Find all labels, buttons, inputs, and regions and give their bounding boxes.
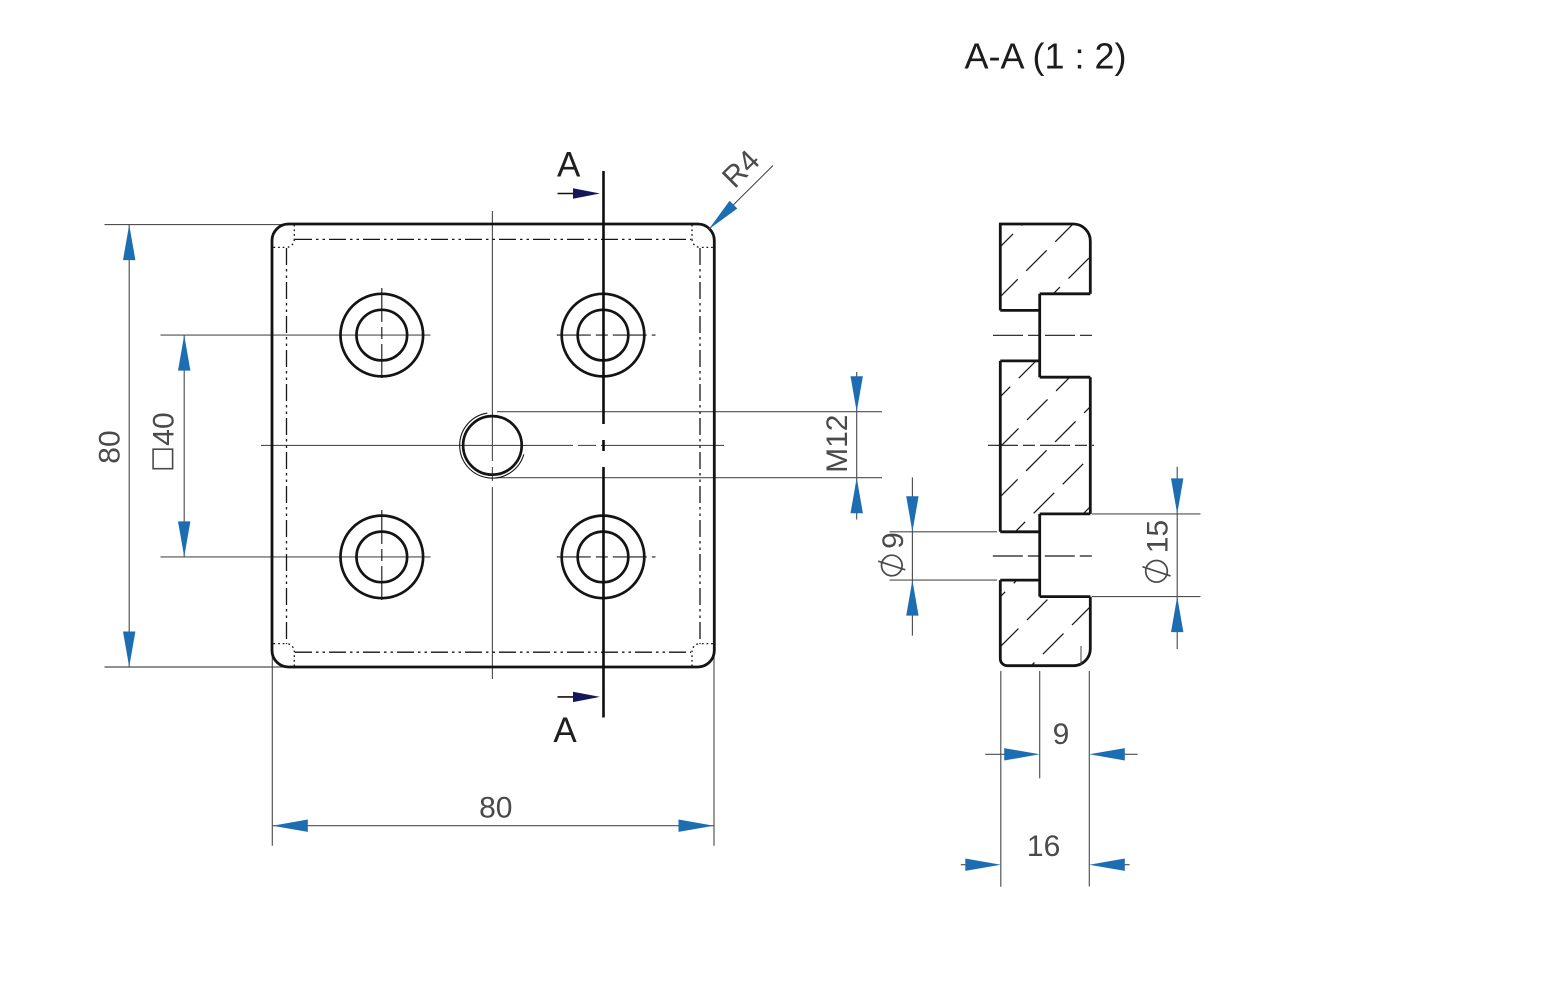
svg-text:9: 9 <box>877 532 910 549</box>
upper hole in section: counterbore dia 15 box <box>1038 294 1041 377</box>
dimension square-40 dimension line with arrows <box>183 335 185 557</box>
section hole centerline (lower hole) <box>993 555 1096 557</box>
counterbore hole top-right: inner circle dia 9 <box>578 310 629 361</box>
dimension 80 (bottom, horizontal) extension lines <box>271 648 273 846</box>
section cut line A-A <box>602 171 605 718</box>
dimension dia 15 extension lines <box>1092 513 1201 515</box>
hole centerline horizontal (bottom-right hole) <box>557 556 656 558</box>
section outline (cut plate profile) <box>1000 224 1090 310</box>
counterbore hole bottom-right: inner circle dia 9 <box>578 532 629 583</box>
lower hole in section: counterbore dia 15 box <box>1038 514 1041 597</box>
counterbore hole top-left: outer circle dia 15 <box>341 294 424 377</box>
svg-text:9: 9 <box>1053 718 1070 751</box>
leader R4 line <box>709 166 773 230</box>
corner fillet tangent marks (dotted, 4 corners) <box>293 225 295 240</box>
central tapped hole M12: minor circle <box>463 416 522 475</box>
dimension 80 (left, vertical) extension lines <box>105 224 291 226</box>
hole centerline vertical (top-left hole) <box>381 288 383 382</box>
dimension M12 dimension line with arrows <box>856 372 858 520</box>
dimension M12 extension lines <box>497 411 882 413</box>
hole centerline vertical (bottom-left hole) <box>381 510 383 604</box>
svg-text:15: 15 <box>1142 520 1175 553</box>
plate centerline horizontal <box>261 444 724 446</box>
dimension 80 (left, vertical) dimension line with arrows <box>128 225 130 667</box>
central tapped hole M12: thread crest arc (3/4 thin circle) <box>460 413 524 478</box>
svg-text:40: 40 <box>148 412 181 445</box>
phantom profile line (dash-dot-dot inner square) <box>295 238 691 240</box>
section mid centerline <box>988 444 1094 446</box>
counterbore hole top-right: outer circle dia 15 <box>562 294 645 377</box>
svg-text:80: 80 <box>94 430 127 463</box>
dimension 9 (counterbore depth) extension lines <box>1039 671 1041 778</box>
svg-text:16: 16 <box>1027 830 1060 863</box>
leader R4 arrowhead <box>709 201 738 230</box>
fillet tangent edge (bottom right, thin) <box>1080 646 1082 665</box>
plate centerline vertical <box>491 211 493 679</box>
dimension 16 dimension line with arrows <box>961 864 967 866</box>
counterbore hole bottom-left: outer circle dia 15 <box>341 516 424 599</box>
svg-text:A: A <box>553 711 577 750</box>
dimension dia 9 dimension line with arrows <box>911 477 913 635</box>
dimension text dia 9 <box>877 532 910 576</box>
dimension square-40 extension lines (through hole centers) <box>161 334 431 336</box>
section arrow bottom (view direction) <box>558 696 576 698</box>
dimension dia 15 dimension line with arrows <box>1176 467 1178 649</box>
counterbore hole bottom-right: outer circle dia 15 <box>562 516 645 599</box>
lower hole in section: small hole dia 9 edges <box>1000 530 1039 533</box>
counterbore hole bottom-left: inner circle dia 9 <box>357 532 408 583</box>
dimension text square 40 <box>148 412 181 468</box>
plate outline (rounded square 80x80) <box>272 224 714 667</box>
dimension 9 dimension line with arrows <box>985 753 1006 755</box>
upper hole in section: small hole dia 9 edges <box>1000 309 1039 312</box>
hole centerline horizontal (top-right hole) <box>557 334 656 336</box>
dimension 16 (thickness) extension line <box>1000 671 1002 887</box>
svg-text:A: A <box>557 146 581 185</box>
svg-text:M12: M12 <box>821 415 854 473</box>
svg-text:A-A (1 : 2): A-A (1 : 2) <box>964 36 1126 77</box>
dimension 80 (bottom) dimension line with arrows <box>272 825 714 827</box>
dimension dia 9 extension lines <box>890 531 998 533</box>
dimension text dia 15 <box>1142 520 1175 582</box>
svg-text:80: 80 <box>479 792 512 825</box>
section arrow top (view direction) <box>558 193 576 195</box>
counterbore hole top-left: inner circle dia 9 <box>357 310 408 361</box>
section hole centerline (upper hole) <box>993 334 1096 336</box>
